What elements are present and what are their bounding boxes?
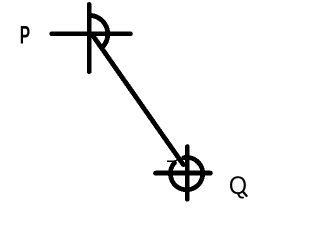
svg-text:Q: Q xyxy=(229,172,247,200)
angle arc at Q (near-full circle, gap upper-left) xyxy=(170,157,202,189)
line through Q (horizontal) xyxy=(156,171,211,176)
angle arc at P xyxy=(89,15,108,46)
label Q tail flick xyxy=(244,193,247,196)
svg-text:P: P xyxy=(20,22,30,50)
perpendicular at P (vertical) xyxy=(87,5,92,72)
perpendicular at Q (vertical) xyxy=(185,147,190,200)
label P xyxy=(20,22,30,50)
line through P (horizontal) xyxy=(52,31,131,36)
segment PQ (diagonal wire) xyxy=(94,37,184,165)
arrow mark at Q arc end xyxy=(168,159,180,161)
label Q xyxy=(229,172,247,200)
